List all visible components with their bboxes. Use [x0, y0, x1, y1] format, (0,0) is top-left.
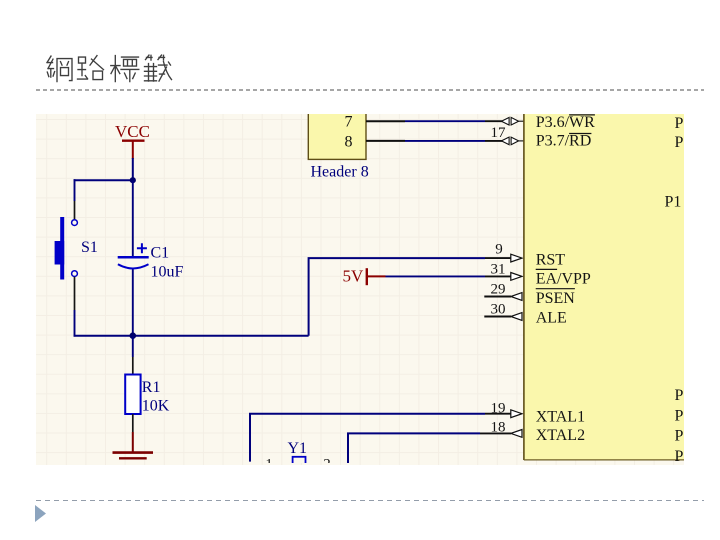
wire bottom bus horizontal	[74, 335, 309, 337]
connector J? Header 8 box	[308, 111, 366, 159]
ground symbol	[113, 453, 154, 459]
resistor R1	[125, 375, 140, 415]
pin name P3.6/WR	[536, 114, 595, 131]
switch S1	[55, 217, 78, 280]
pin S1 bottom	[74, 277, 76, 310]
pin name EA/VPP	[536, 269, 591, 287]
svg-text:P: P	[675, 428, 684, 445]
svg-text:1: 1	[265, 457, 273, 464]
crystal Y1 body	[293, 457, 306, 467]
pin P3.7 IO arrows	[501, 137, 523, 145]
pin S1 top	[74, 201, 76, 219]
pin P3.7 stub	[485, 140, 502, 142]
char 標	[111, 56, 139, 82]
svg-text:XTAL1: XTAL1	[536, 408, 585, 425]
pin RST input arrow	[511, 254, 522, 262]
svg-text:7: 7	[345, 114, 353, 131]
pin R1 top	[132, 357, 134, 375]
dashed rule under title	[36, 89, 704, 91]
schematic screenshot area	[36, 114, 684, 465]
wire VCC vertical	[132, 158, 134, 180]
svg-text:PSEN: PSEN	[536, 290, 576, 307]
svg-text:31: 31	[491, 261, 506, 277]
svg-text:P: P	[675, 115, 684, 132]
char 籤	[145, 55, 172, 81]
svg-text:P: P	[675, 448, 684, 463]
svg-text:30: 30	[491, 301, 506, 317]
wire left branch down to switch	[74, 179, 76, 201]
pin XTAL1 stub	[485, 413, 511, 415]
char 網	[47, 56, 72, 82]
wire cap bottom	[132, 270, 134, 337]
svg-text:10K: 10K	[142, 398, 170, 415]
svg-text:ALE: ALE	[536, 310, 567, 327]
svg-text:P1: P1	[665, 194, 682, 211]
svg-text:P: P	[675, 387, 684, 404]
svg-text:8: 8	[345, 133, 353, 150]
svg-text:P3.6/WR: P3.6/WR	[536, 114, 595, 131]
svg-text:EA/VPP: EA/VPP	[536, 271, 591, 288]
wire header pin7 to U1	[405, 120, 485, 122]
pin P3.6 stub	[485, 120, 502, 122]
svg-text:2: 2	[323, 457, 331, 464]
pin EA stub	[485, 275, 511, 277]
pin XTAL1 input arrow	[511, 410, 522, 418]
pin 8 stub	[366, 140, 405, 142]
svg-text:5V: 5V	[343, 267, 365, 286]
svg-text:S1: S1	[81, 239, 98, 256]
svg-text:P3.7/RD: P3.7/RD	[536, 132, 592, 149]
wire RST net	[309, 258, 485, 336]
title 網路標籤 (drawn strokes)	[44, 52, 176, 86]
svg-text:R1: R1	[142, 379, 161, 396]
svg-text:XTAL2: XTAL2	[536, 427, 585, 444]
pin XTAL2 output arrow	[511, 430, 522, 438]
wire junction to R1	[132, 336, 134, 357]
pin ALE output arrow	[511, 313, 522, 321]
svg-text:Y1: Y1	[288, 440, 308, 457]
bottom dashed rule	[36, 500, 704, 502]
wire cap top	[132, 180, 134, 256]
power symbol VCC	[115, 122, 150, 159]
svg-text:P: P	[675, 407, 684, 424]
mcu U1 body	[524, 111, 686, 460]
svg-text:29: 29	[491, 281, 506, 297]
pin EA input arrow	[511, 273, 522, 281]
capacitor C1	[118, 243, 149, 268]
wire header pin8 to U1	[405, 140, 485, 142]
svg-text:Header 8: Header 8	[311, 164, 369, 181]
pin R1 bottom	[132, 414, 134, 432]
svg-text:18: 18	[491, 420, 506, 436]
pin name PSEN	[536, 289, 576, 307]
svg-text:17: 17	[491, 125, 507, 141]
power port 5V	[343, 267, 386, 286]
svg-text:P: P	[675, 134, 684, 151]
svg-text:C1: C1	[151, 245, 170, 262]
pin 7 stub	[366, 120, 405, 122]
svg-text:9: 9	[495, 241, 503, 257]
wire top horizontal	[74, 179, 133, 181]
wire switch bottom to bus	[74, 310, 76, 337]
svg-text:RST: RST	[536, 252, 566, 269]
svg-text:10uF: 10uF	[151, 264, 184, 281]
pin name P3.7/RD	[536, 132, 592, 149]
svg-text:19: 19	[491, 400, 506, 416]
pin PSEN stub	[484, 296, 511, 298]
wire to ground	[132, 432, 134, 453]
pin P3.6 IO arrows	[501, 117, 523, 125]
junction at VCC node	[130, 177, 136, 183]
wire XTAL2 net	[348, 433, 480, 463]
svg-text:VCC: VCC	[115, 122, 150, 141]
pin ALE stub	[484, 316, 511, 318]
wire 5V to EA	[386, 275, 486, 277]
pin XTAL2 stub	[480, 432, 511, 434]
pin RST stub	[485, 257, 511, 259]
pin PSEN output arrow	[511, 293, 522, 301]
wire XTAL1 net	[250, 414, 485, 462]
junction at R1 node	[130, 332, 137, 339]
bottom-left slide arrow	[33, 504, 49, 524]
char 路	[78, 56, 104, 80]
